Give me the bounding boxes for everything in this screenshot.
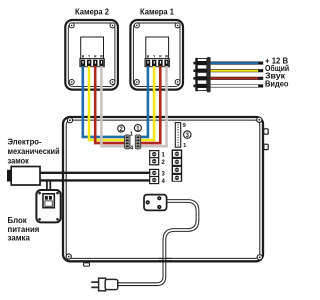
svg-text:Камера 1: Камера 1	[140, 8, 174, 17]
wire camera1 blue	[141, 66, 148, 137]
svg-text:Блок: Блок	[8, 216, 28, 225]
power cable	[118, 201, 198, 284]
lock power supply box	[36, 190, 60, 222]
wire camera2 white	[101, 66, 126, 146]
connector 1 (socket J1)	[135, 135, 140, 149]
wire common yellow	[211, 69, 264, 72]
bottom border over cable	[158, 260, 172, 262]
terminal block 3-4	[149, 169, 159, 184]
wire lock to terminal 3	[40, 172, 153, 174]
wire audio red	[211, 77, 264, 80]
terminal block right 4x	[172, 149, 183, 181]
main box corner screw bottom-left	[66, 254, 71, 259]
main box outer border	[63, 117, 263, 261]
wire video white	[211, 84, 264, 87]
camera 1 box	[130, 20, 183, 90]
connector 3 (9-pin header)	[175, 123, 180, 148]
main box right edge tab upper	[264, 129, 268, 134]
wire camera2 yellow	[89, 66, 126, 140]
wire camera1 yellow	[141, 66, 155, 140]
svg-text:замок: замок	[8, 157, 30, 166]
wire camera1 red	[141, 66, 161, 143]
svg-text:замка: замка	[8, 234, 31, 243]
main box bottom tab	[84, 263, 90, 266]
electromechanical lock body	[11, 167, 40, 186]
svg-text:механический: механический	[8, 147, 60, 156]
wire psu left	[46, 180, 48, 197]
terminal block 1-2	[149, 150, 159, 165]
main box right edge tab lower	[264, 144, 268, 149]
circled 3	[184, 131, 191, 138]
circled 2	[118, 125, 125, 132]
svg-text:Электро-: Электро-	[8, 137, 42, 146]
connector 2 (socket J2)	[125, 135, 130, 149]
electromechanical lock bolt	[7, 170, 11, 182]
wire camera1 white	[141, 66, 167, 146]
main box corner screw top-right	[257, 117, 262, 122]
main box corner screw bottom-right	[257, 255, 262, 260]
svg-text:Камера 2: Камера 2	[75, 8, 109, 17]
wire psu right	[49, 180, 51, 197]
relay component	[144, 195, 167, 211]
4-pin plug connector (monitor cable)	[193, 57, 210, 92]
wire lock to terminal 4	[40, 179, 153, 181]
main box corner screw top-left	[67, 118, 72, 123]
wire camera2 blue	[83, 66, 126, 137]
wire +12V blue	[211, 62, 264, 65]
mains plug	[91, 278, 117, 291]
wire camera2 red	[95, 66, 126, 143]
circled 1	[134, 125, 141, 132]
main box inner border	[66, 120, 260, 258]
psu socket	[43, 194, 54, 208]
svg-text:Видео: Видео	[265, 79, 289, 88]
camera 2 box	[65, 20, 118, 90]
